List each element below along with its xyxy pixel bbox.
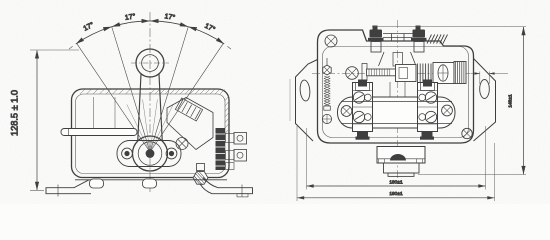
block mount screw left <box>341 106 352 117</box>
svg-text:190±1: 190±1 <box>389 191 403 197</box>
plunger guides to block <box>390 82 405 97</box>
return spring (zigzag) <box>324 76 330 106</box>
case screw top-left <box>325 35 337 47</box>
swing arc (lever travel) <box>76 21 224 44</box>
contact column right <box>418 83 438 132</box>
svg-text:17°: 17° <box>124 12 136 22</box>
top bracket bar <box>383 34 413 42</box>
piston block <box>396 65 417 82</box>
block mount screw right <box>442 105 453 116</box>
adjuster hatched plug <box>454 62 466 84</box>
plunger guide <box>379 52 417 66</box>
vertical centerline <box>397 20 399 183</box>
switch body inner wall <box>76 94 226 174</box>
lever arm <box>138 74 162 140</box>
case screw left <box>346 67 359 80</box>
right wing slot hole <box>480 80 490 99</box>
slot width dimension <box>471 72 509 85</box>
cable gland top <box>377 147 425 164</box>
contact block base plate <box>338 97 456 128</box>
interior plunger guides <box>94 97 116 133</box>
right mounting wing <box>474 59 496 142</box>
case inner wall <box>323 47 469 138</box>
foot pad left <box>90 179 104 188</box>
terminal lug small rects <box>226 134 235 143</box>
dimension 128.5 +/- 1.0 <box>30 49 79 51</box>
height dimension (right) <box>372 26 526 28</box>
right view: front elevation, cover removed <box>290 20 526 201</box>
cover section hatching <box>80 90 229 134</box>
actuating rod <box>61 129 137 136</box>
left wing slot hole <box>299 80 310 102</box>
case screw bottom-right <box>462 128 472 138</box>
mounting bracket left <box>46 180 91 194</box>
hub ear bolt left <box>122 148 133 159</box>
terminal screws <box>353 92 364 103</box>
hub outer boss <box>133 136 168 171</box>
left mounting wing <box>296 60 318 142</box>
column bolts <box>356 80 435 140</box>
lever position fan lines <box>77 43 150 152</box>
terminal box 2 <box>234 150 247 162</box>
column top tabs <box>356 83 370 91</box>
gland dome <box>390 154 406 161</box>
clevis bracket <box>362 64 367 81</box>
mounting bracket right <box>201 178 253 194</box>
centerline: lever vertical axis <box>149 12 151 192</box>
case outer outline <box>318 30 474 143</box>
hex bolt <box>197 164 205 171</box>
contact column left <box>353 83 373 132</box>
svg-text:17°: 17° <box>164 12 176 22</box>
horizontal axis centerline <box>312 73 471 75</box>
left view: lever limit switch side elevation <box>10 12 253 197</box>
top bolt right <box>411 26 427 42</box>
spring housing block <box>433 63 454 84</box>
arc arrowheads / angle ticks <box>75 37 84 45</box>
base line <box>75 179 227 181</box>
slanted spring pack <box>175 98 202 121</box>
hole-spacing dimension <box>307 126 486 190</box>
hub flange plate <box>117 141 181 167</box>
coil spring <box>418 64 432 83</box>
cable gland middle <box>384 163 420 173</box>
top coil spring (hatched) <box>427 35 448 44</box>
hub ear bolt right <box>166 148 177 159</box>
return spring anchor nut <box>323 65 331 75</box>
terminal connector stack <box>216 128 226 170</box>
interior bracket <box>167 98 213 150</box>
foot pad center <box>143 179 157 188</box>
cable gland bottom <box>388 173 414 176</box>
bracket bolt <box>176 138 188 150</box>
svg-text:148±1: 148±1 <box>508 94 514 108</box>
switch body outer case <box>72 89 230 178</box>
overall width dimension <box>297 126 495 201</box>
svg-text:128.5 ± 1.0: 128.5 ± 1.0 <box>10 90 20 136</box>
hub shaft center <box>146 149 155 158</box>
contact bars <box>341 102 452 124</box>
terminal box 1 <box>234 133 247 145</box>
roller on lever <box>136 49 164 77</box>
svg-text:180±1: 180±1 <box>389 179 403 185</box>
top bolt left <box>368 26 384 42</box>
arc end dashes <box>69 46 73 49</box>
threaded rod <box>367 69 396 76</box>
